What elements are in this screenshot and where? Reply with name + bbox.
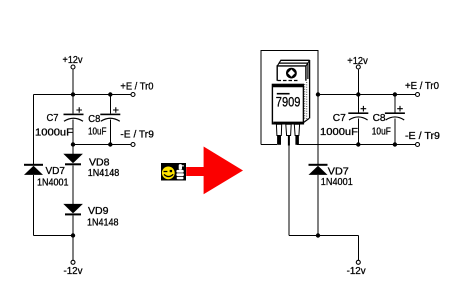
- tab hole washer: [286, 68, 297, 79]
- node B junction dot (top rail / C8): [108, 92, 112, 96]
- pin 1 leg: [276, 124, 281, 135]
- svg-text:+12v: +12v: [63, 55, 83, 66]
- diode VD8: [63, 145, 83, 204]
- svg-text:+E / Tr0: +E / Tr0: [120, 81, 153, 92]
- terminal +E/Tr0 (left): [131, 93, 135, 97]
- tab front face: [277, 65, 306, 81]
- svg-text:C8: C8: [373, 113, 386, 124]
- wire left branch (top rail down to VD7): [33, 95, 35, 164]
- wire -E rail (right circuit, frame bottom extension): [297, 144, 415, 146]
- junction dot frame / top rail: [316, 92, 320, 96]
- svg-text:VD7: VD7: [46, 166, 66, 177]
- junction dot -E rail / C8: [108, 142, 112, 146]
- capacitor C8 (right): [385, 95, 405, 145]
- terminal +E/Tr0 (right): [416, 93, 420, 97]
- svg-text:C7: C7: [47, 113, 59, 124]
- svg-text:1000uF: 1000uF: [35, 127, 73, 138]
- node A junction dot (top rail / C7): [71, 92, 75, 96]
- tab hole center: [288, 69, 295, 76]
- tab white silhouette: [277, 60, 311, 82]
- body top thick edge: [272, 84, 303, 87]
- junction dot -E rail / C7: [71, 142, 75, 146]
- junction dot top rail / C8 (right): [393, 92, 397, 96]
- marking line above 7909: [277, 93, 290, 95]
- smiley emoticon thumbs-up icon: [161, 163, 186, 181]
- frame around regulator (wire box): [261, 51, 318, 145]
- svg-text:VD8: VD8: [89, 157, 110, 168]
- svg-text:1N4148: 1N4148: [87, 217, 119, 228]
- svg-text:C7: C7: [333, 113, 346, 124]
- junction dot top rail / C7 (right): [356, 92, 360, 96]
- svg-text:+E / Tr0: +E / Tr0: [405, 81, 439, 92]
- tab middle layer: [279, 63, 308, 79]
- wire +12v terminal to top rail: [72, 69, 74, 94]
- wire frame bottom left segment: [261, 144, 277, 146]
- svg-text:VD9: VD9: [88, 206, 109, 217]
- svg-text:1N4001: 1N4001: [321, 177, 353, 188]
- svg-text:1N4001: 1N4001: [37, 178, 69, 189]
- svg-text:7909: 7909: [276, 95, 301, 110]
- junction dot -E rail / C7 (right): [356, 142, 360, 146]
- svg-text:-12v: -12v: [64, 266, 83, 277]
- svg-text:10uF: 10uF: [372, 126, 391, 137]
- body front face: [272, 84, 303, 123]
- svg-text:-12v: -12v: [347, 266, 366, 277]
- svg-text:C8: C8: [88, 114, 100, 125]
- diode VD9: [63, 204, 83, 236]
- terminal -12v (right): [356, 260, 360, 264]
- wire bottom rail (left circuit): [34, 235, 74, 237]
- terminal +12v (right): [356, 65, 360, 69]
- terminal +12v (left): [71, 65, 75, 69]
- capacitor C7 (right): [348, 95, 368, 145]
- svg-text:VD7: VD7: [328, 166, 349, 177]
- wire bottom rail (right circuit): [289, 235, 359, 237]
- junction dot -E rail / C8 (right): [393, 142, 397, 146]
- wire regulator output pin down: [288, 145, 290, 236]
- pin 3 leg: [294, 124, 299, 135]
- junction dot bottom rail: [71, 233, 75, 237]
- tab back layer: [280, 60, 309, 118]
- regulator U1 7909 TO-220 package: [272, 60, 310, 146]
- body bottom-right slant: [303, 118, 309, 122]
- diode VD7 (right): [309, 145, 328, 236]
- tab corner slants: [277, 60, 309, 66]
- svg-text:-E / Tr9: -E / Tr9: [405, 131, 440, 142]
- capacitor C7 (left): [64, 95, 84, 145]
- svg-text:-E / Tr9: -E / Tr9: [120, 129, 154, 140]
- pin 2 leg: [286, 124, 291, 135]
- body bottom thick edge: [273, 122, 303, 125]
- diode VD7 (left): [24, 164, 43, 236]
- wire top rail (right circuit): [318, 94, 415, 96]
- red replacement arrow: [186, 147, 243, 195]
- wire -E rail (left circuit): [73, 144, 131, 146]
- terminal -E/Tr9 (left): [131, 143, 135, 147]
- wire top rail (left circuit): [34, 94, 131, 96]
- terminal -E/Tr9 (right): [416, 143, 420, 147]
- wire to -12v terminal (right): [357, 236, 359, 261]
- tab/body dashed boundary: [278, 80, 300, 82]
- body side face hatch: [305, 82, 307, 120]
- wire to -12v terminal (left): [72, 236, 74, 261]
- svg-text:1000uF: 1000uF: [320, 127, 358, 138]
- svg-text:10uF: 10uF: [88, 126, 107, 137]
- capacitor C8 (left): [100, 95, 120, 145]
- svg-text:1N4148: 1N4148: [88, 168, 120, 179]
- terminal -12v (left): [71, 260, 75, 264]
- junction dot bottom rail / VD7 (right): [316, 233, 320, 237]
- wire +12v terminal to top rail (right): [357, 69, 359, 94]
